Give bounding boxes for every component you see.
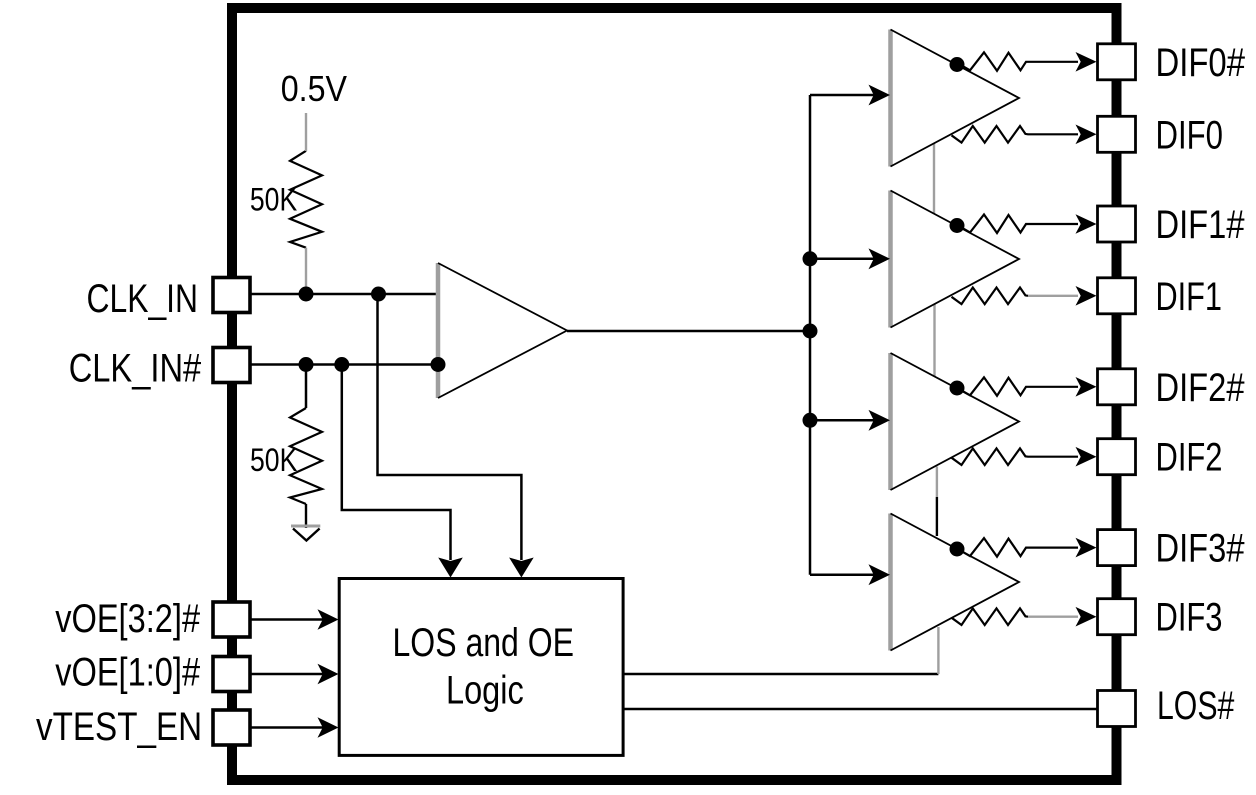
svg-text:vOE[3:2]#: vOE[3:2]# — [55, 597, 201, 641]
svg-text:DIF1#: DIF1# — [1156, 203, 1246, 247]
svg-text:DIF0: DIF0 — [1156, 113, 1224, 157]
svg-text:0.5V: 0.5V — [281, 68, 348, 109]
svg-text:LOS#: LOS# — [1157, 684, 1235, 728]
svg-text:50K: 50K — [250, 182, 297, 218]
svg-text:LOS and OE: LOS and OE — [393, 621, 575, 665]
svg-text:DIF3#: DIF3# — [1156, 527, 1246, 571]
svg-text:vTEST_EN: vTEST_EN — [36, 705, 202, 749]
svg-text:CLK_IN: CLK_IN — [87, 277, 199, 321]
svg-text:50K: 50K — [250, 442, 297, 478]
svg-text:DIF1: DIF1 — [1156, 275, 1223, 319]
svg-text:Logic: Logic — [446, 669, 524, 713]
svg-text:DIF3: DIF3 — [1156, 596, 1223, 640]
svg-text:DIF0#: DIF0# — [1156, 41, 1246, 85]
svg-text:DIF2#: DIF2# — [1156, 366, 1246, 410]
svg-text:CLK_IN#: CLK_IN# — [69, 347, 202, 391]
svg-text:vOE[1:0]#: vOE[1:0]# — [55, 651, 201, 695]
svg-text:DIF2: DIF2 — [1156, 436, 1223, 480]
